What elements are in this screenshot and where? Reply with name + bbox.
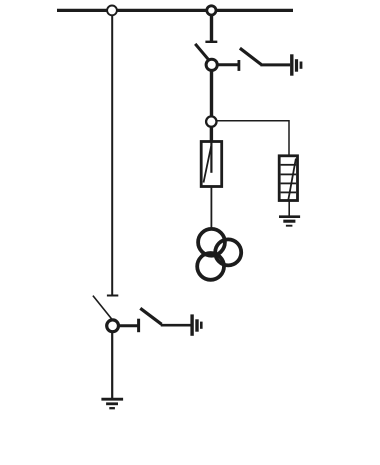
wire ES1 to earth <box>260 63 290 66</box>
ground arrester (down-facing earth) <box>279 217 300 226</box>
transformer T1 winding 3 (right) <box>215 239 241 265</box>
wire arrester to earth <box>288 201 290 217</box>
wire right feeder drop <box>210 16 213 42</box>
fuse F1 body <box>201 142 222 187</box>
disconnector QS1 fixed contact <box>205 41 217 43</box>
ground ES1 (right-facing earth) <box>292 54 301 75</box>
arrester FV1 body <box>279 156 297 201</box>
fuse F1 element (inner vertical) <box>210 142 212 173</box>
wire earthing switch ES2 stub <box>119 324 139 327</box>
wire below QS2 hinge <box>111 332 113 399</box>
earthing switch ES2 blade <box>140 308 161 324</box>
fuse F1 striker diagonal <box>204 146 212 183</box>
wire fuse to transformer <box>210 187 212 229</box>
ground left feeder (down-facing earth) <box>101 399 123 408</box>
wire QS1 hinge to node C <box>210 70 213 116</box>
disconnector QS2 fixed contact <box>107 295 118 297</box>
node A (left busbar tap) <box>107 5 117 15</box>
node B (right busbar tap) <box>207 6 216 15</box>
wire left feeder vertical <box>111 16 113 295</box>
disconnector QS2 blade <box>93 296 112 320</box>
arrester FV1 rungs <box>281 165 297 193</box>
busbar <box>57 9 293 12</box>
wire earthing switch ES1 stub <box>217 63 239 66</box>
transformer T1 winding 2 (bottom) <box>197 253 224 280</box>
transformer T1 winding 1 (top) <box>198 229 225 256</box>
arrester FV1 diagonal <box>288 159 296 201</box>
disconnector QS1 hinge circle <box>206 59 217 70</box>
node C (fuse branch tap) <box>206 116 216 126</box>
wire ES2 to earth <box>161 324 192 327</box>
disconnector QS1 blade <box>195 44 209 60</box>
earthing switch ES1 blade <box>240 48 261 64</box>
disconnector QS2 hinge circle <box>107 320 119 332</box>
earthing switch ES1 fixed contact <box>237 60 240 71</box>
ground ES2 (right-facing earth) <box>192 314 201 335</box>
wire branch to arrester <box>217 121 289 156</box>
wire node C to fuse <box>210 127 213 143</box>
earthing switch ES2 fixed contact <box>137 319 140 333</box>
